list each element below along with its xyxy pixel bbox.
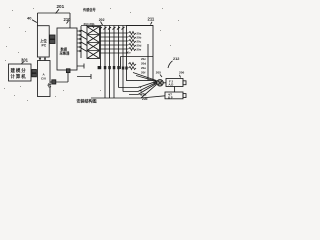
svg-text:20f: 20f	[141, 71, 145, 75]
svg-text:204 20b: 204 20b	[84, 22, 95, 26]
svg-text:上位: 上位	[40, 38, 47, 43]
svg-text:计算机: 计算机	[11, 73, 27, 80]
svg-text:210: 210	[64, 17, 72, 22]
svg-text:C/U: C/U	[41, 77, 46, 81]
svg-text:201: 201	[57, 4, 65, 9]
svg-text:212: 212	[173, 57, 179, 61]
svg-text:20e: 20e	[137, 48, 142, 52]
svg-text:205: 205	[156, 71, 161, 75]
svg-text:B P: B P	[168, 96, 173, 100]
svg-text:传感信号: 传感信号	[82, 7, 97, 12]
svg-text:采集器: 采集器	[59, 51, 71, 56]
svg-text:20a: 20a	[141, 93, 147, 97]
svg-text:PC: PC	[42, 44, 47, 48]
svg-text:206: 206	[179, 71, 184, 75]
svg-text:211: 211	[148, 17, 155, 22]
svg-text:20d: 20d	[141, 62, 146, 66]
svg-text:A.D: A.D	[169, 83, 174, 87]
svg-text:301: 301	[21, 58, 29, 63]
svg-text:20e: 20e	[141, 66, 146, 70]
svg-text:20e: 20e	[126, 51, 131, 55]
svg-text:.: .	[96, 99, 97, 103]
svg-text:建模分: 建模分	[10, 67, 27, 74]
svg-text:202: 202	[99, 18, 105, 22]
svg-text:20c: 20c	[141, 57, 146, 61]
svg-text:20b: 20b	[142, 97, 148, 101]
svg-text:安装结构图: 安装结构图	[77, 97, 97, 103]
svg-text:40: 40	[27, 16, 32, 21]
svg-text:七: 七	[47, 82, 52, 89]
